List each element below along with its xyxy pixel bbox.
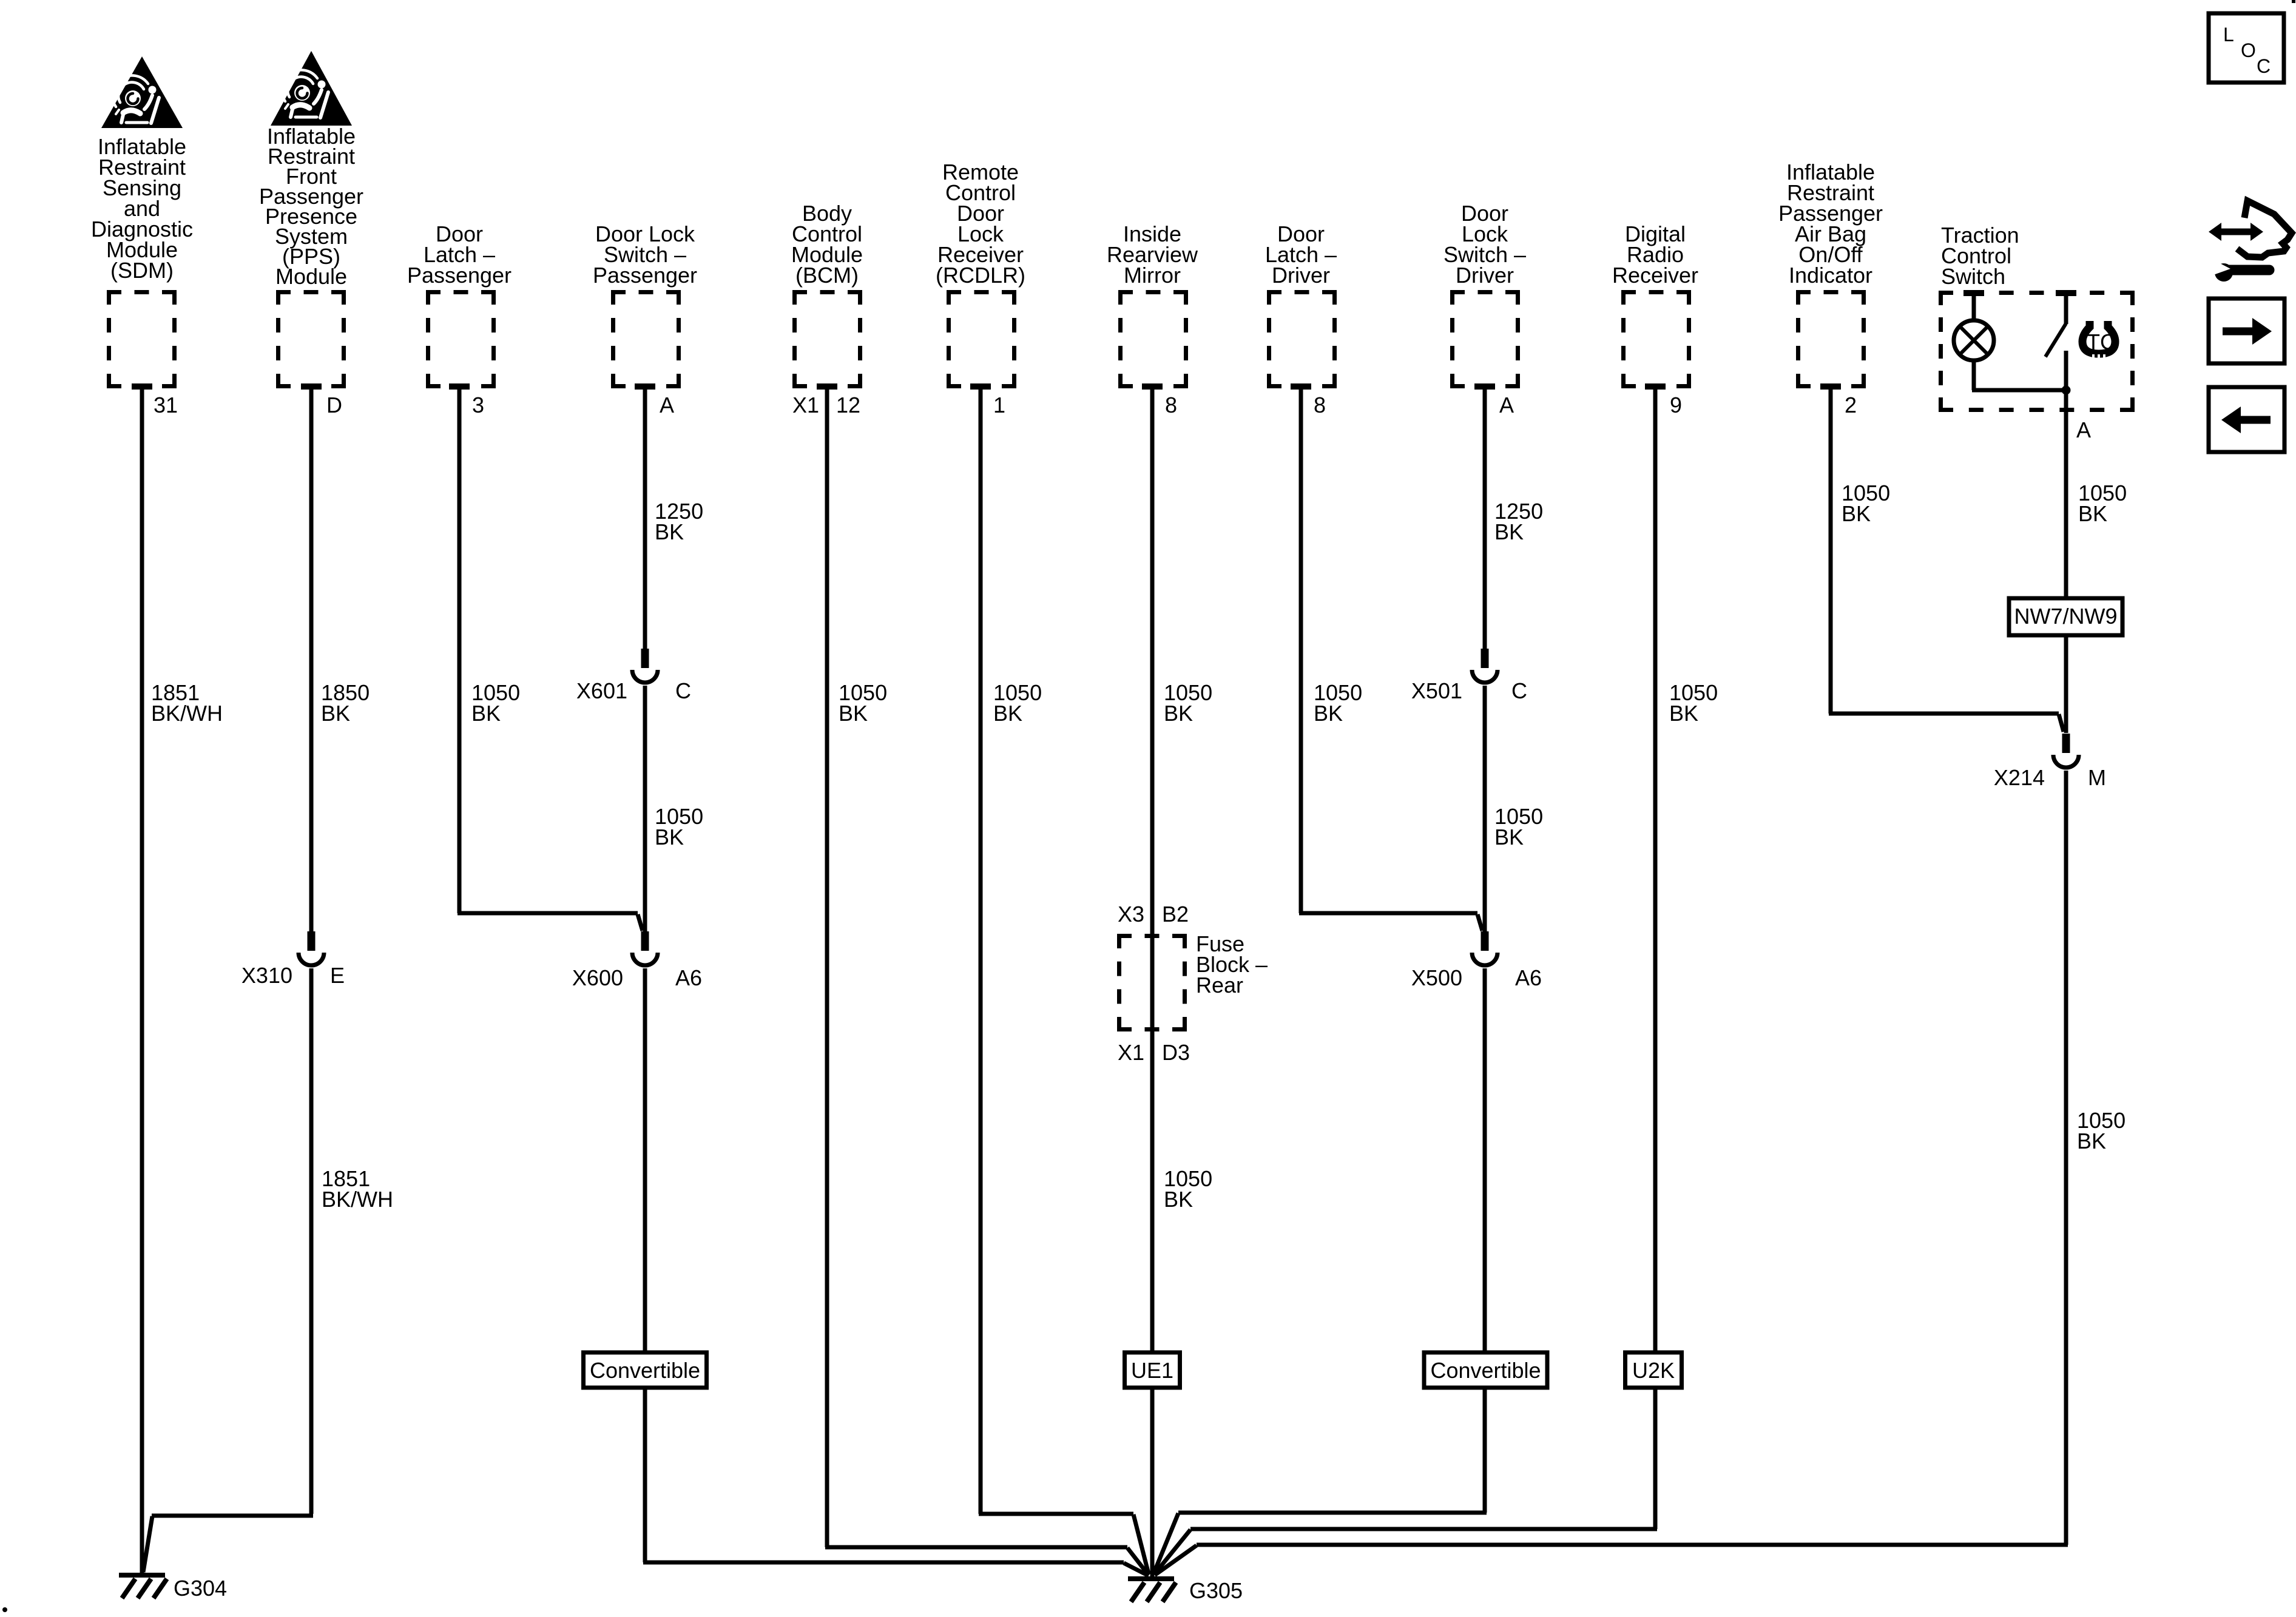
wire mirror to G305	[1150, 388, 1155, 1576]
svg-text:Passenger: Passenger	[593, 263, 697, 288]
svg-text:Driver: Driver	[1272, 263, 1330, 288]
svg-text:BK: BK	[1494, 825, 1524, 849]
svg-text:X1: X1	[792, 393, 819, 417]
svg-text:BK: BK	[1842, 501, 1871, 526]
switch box Traction Control	[1939, 291, 2135, 295]
back arrow legend box	[2209, 387, 2284, 452]
svg-text:BK: BK	[993, 701, 1022, 726]
wire DRR to G305	[1653, 388, 1658, 1529]
wire BCM to G305	[825, 388, 829, 1547]
svg-text:U2K: U2K	[1632, 1358, 1675, 1383]
svg-text:8: 8	[1165, 393, 1177, 417]
svg-text:B2: B2	[1162, 902, 1189, 927]
forward arrow legend box	[2209, 299, 2284, 363]
svg-text:1: 1	[993, 393, 1005, 417]
wire X310 to G304	[309, 968, 314, 1514]
svg-text:BK: BK	[1314, 701, 1343, 726]
wire RCDLR to G305	[979, 388, 983, 1514]
page dot bottom-left	[2, 1607, 7, 1612]
option box Convertible right	[1424, 1352, 1547, 1388]
pin 31	[132, 383, 152, 390]
svg-text:Convertible: Convertible	[1430, 1358, 1541, 1383]
harness box NW7/NW9	[2009, 598, 2122, 635]
back arrow	[2239, 416, 2271, 424]
pin 2	[1820, 383, 1841, 390]
connector X310 pin E	[308, 931, 316, 951]
pin D	[301, 383, 322, 390]
svg-text:X1: X1	[1118, 1040, 1144, 1065]
lamp feed wire	[1963, 290, 1984, 296]
svg-text:12: 12	[836, 393, 860, 417]
LOC legend box	[2209, 13, 2284, 83]
forward arrow	[2223, 328, 2254, 336]
svg-text:3: 3	[472, 393, 484, 417]
svg-text:BK: BK	[1164, 701, 1193, 726]
connector box PPS	[276, 290, 346, 294]
connector X214 pin M	[2062, 734, 2070, 753]
svg-text:C: C	[1511, 678, 1527, 703]
svg-text:TC: TC	[2087, 329, 2116, 354]
svg-text:BK: BK	[2077, 1129, 2106, 1153]
connector X600 pin A6	[641, 931, 649, 951]
svg-text:O: O	[2241, 39, 2256, 61]
svg-text:(RCDLR): (RCDLR)	[936, 263, 1025, 288]
svg-text:9: 9	[1670, 393, 1682, 417]
svg-text:A: A	[660, 393, 674, 417]
svg-text:M: M	[2088, 765, 2106, 790]
svg-text:BK: BK	[655, 519, 684, 544]
connector X501 pin C	[1481, 649, 1489, 668]
ground G305	[1128, 1576, 1174, 1581]
connector box SDM	[107, 290, 177, 294]
switch lower contact wire	[2064, 351, 2068, 390]
svg-text:A6: A6	[675, 965, 702, 990]
svg-text:(SDM): (SDM)	[110, 258, 174, 283]
svg-text:BK: BK	[321, 701, 350, 726]
connector box Door Latch Passenger	[426, 290, 496, 294]
svg-text:Indicator: Indicator	[1789, 263, 1872, 288]
svg-text:UE1: UE1	[1131, 1358, 1173, 1383]
wire X500 to G305	[1483, 968, 1487, 1513]
pin 1	[970, 383, 991, 390]
lamp to junction wire	[1972, 360, 1976, 390]
connector box Door Lock Switch Passenger	[611, 290, 681, 294]
svg-text:2: 2	[1845, 393, 1857, 417]
svg-text:G305: G305	[1189, 1578, 1243, 1603]
svg-text:BK/WH: BK/WH	[322, 1187, 393, 1212]
switch blade	[2045, 323, 2066, 357]
connector box BCM	[792, 290, 862, 294]
pin A col9	[1474, 383, 1495, 390]
connector box Door Latch Driver	[1267, 290, 1337, 294]
svg-text:BK: BK	[1669, 701, 1698, 726]
warning triangle (PPS)	[271, 51, 352, 126]
svg-text:A: A	[1499, 393, 1514, 417]
svg-text:BK: BK	[471, 701, 501, 726]
wire X600 to G305	[643, 968, 647, 1562]
pin A col4	[635, 383, 655, 390]
svg-text:X310: X310	[241, 963, 292, 988]
pin 3	[449, 383, 470, 390]
connector box Inside Rearview Mirror	[1118, 290, 1188, 294]
pin 8 col8	[1291, 383, 1311, 390]
wire SDM to G304	[140, 388, 144, 1574]
option box Convertible left	[584, 1352, 707, 1388]
svg-text:E: E	[330, 963, 345, 988]
wire X501 to X500	[1483, 686, 1487, 931]
svg-text:A: A	[2076, 417, 2091, 442]
svg-text:D: D	[326, 393, 342, 417]
wire PPS to X310	[309, 388, 314, 931]
svg-text:Passenger: Passenger	[407, 263, 512, 288]
wire to X601	[643, 388, 647, 649]
svg-text:C: C	[675, 678, 691, 703]
svg-text:L: L	[2223, 24, 2234, 46]
svg-text:Driver: Driver	[1456, 263, 1514, 288]
svg-text:31: 31	[154, 393, 178, 417]
svg-text:X214: X214	[1994, 765, 2045, 790]
wire indicator to X214	[1829, 388, 1833, 714]
wire switch to NW7/NW9	[2064, 390, 2068, 598]
svg-text:A6: A6	[1515, 965, 1542, 990]
svg-text:BK: BK	[655, 825, 684, 849]
svg-text:Convertible: Convertible	[590, 1358, 700, 1383]
connector X500 pin A6	[1481, 931, 1489, 951]
svg-text:BK: BK	[1494, 519, 1524, 544]
wire to X501	[1483, 388, 1487, 649]
svg-text:Switch: Switch	[1941, 264, 2005, 289]
svg-text:X3: X3	[1118, 902, 1144, 927]
svg-text:(BCM): (BCM)	[795, 263, 859, 288]
svg-text:X601: X601	[576, 678, 627, 703]
wire X601 to X600	[643, 686, 647, 931]
svg-text:BK: BK	[2078, 501, 2107, 526]
svg-text:X500: X500	[1411, 965, 1462, 990]
svg-text:BK/WH: BK/WH	[151, 701, 223, 726]
svg-text:G304: G304	[174, 1576, 227, 1601]
pin 9	[1645, 383, 1666, 390]
junction dot	[2062, 386, 2071, 395]
ground G304	[119, 1573, 165, 1578]
fuse block rear box	[1117, 934, 1187, 938]
option box U2K	[1626, 1352, 1682, 1388]
wire Door Latch Passenger	[458, 388, 462, 913]
service tools icon (arrow + wrench)	[2220, 229, 2252, 235]
svg-text:NW7/NW9: NW7/NW9	[2014, 604, 2118, 629]
svg-text:8: 8	[1314, 393, 1326, 417]
wire NW7/NW9 to X214	[2064, 635, 2068, 733]
connector box Door Lock Switch Driver	[1450, 290, 1520, 294]
svg-text:C: C	[2257, 55, 2271, 77]
svg-text:Mirror: Mirror	[1124, 263, 1181, 288]
svg-text:Rear: Rear	[1196, 973, 1243, 998]
page dot top-right	[2292, 0, 2295, 3]
pin 8 col7	[1142, 383, 1163, 390]
TC tire icon	[2082, 321, 2115, 354]
indicator lamp	[1954, 320, 1994, 360]
connector box Air Bag Indicator	[1796, 290, 1866, 294]
svg-text:Receiver: Receiver	[1612, 263, 1698, 288]
warning triangle (SDM)	[101, 56, 183, 128]
svg-text:BK: BK	[839, 701, 868, 726]
svg-text:BK: BK	[1164, 1187, 1193, 1212]
svg-text:Module: Module	[275, 264, 347, 289]
switch feed wire	[2056, 290, 2076, 296]
wire X214 to G305	[2064, 771, 2068, 1545]
wire Door Latch Driver	[1299, 388, 1303, 913]
option box UE1	[1125, 1352, 1180, 1388]
pin X1 12	[817, 383, 837, 390]
connector X601 pin C	[641, 649, 649, 668]
svg-text:X600: X600	[572, 965, 623, 990]
connector box RCDLR	[947, 290, 1016, 294]
svg-text:X501: X501	[1411, 678, 1462, 703]
svg-text:D3: D3	[1162, 1040, 1190, 1065]
connector box Digital Radio Receiver	[1621, 290, 1691, 294]
